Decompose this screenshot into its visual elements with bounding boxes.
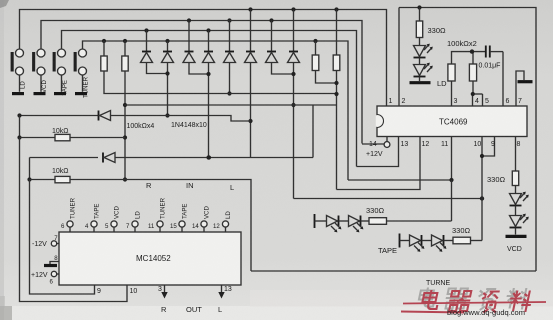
wire nested line pin12 y189.5	[337, 137, 421, 190]
wire big box bottom y271	[251, 270, 536, 272]
wire left column to pin10	[20, 138, 128, 302]
node L3-D1	[144, 28, 148, 32]
resistor R10 330 chain1	[366, 206, 452, 224]
pin 12 LD input	[213, 211, 232, 232]
resistor R4 100k	[333, 10, 340, 190]
pin 3 stub	[452, 81, 458, 106]
label R bus	[146, 181, 152, 190]
wire chain1 riser x451.5	[451, 180, 453, 221]
node L1-D8	[291, 7, 295, 11]
common bar chain1	[315, 214, 327, 228]
pin 6 +12V supply	[31, 271, 59, 285]
label 330O R7	[428, 26, 447, 35]
svg-text:blog.www.dq-gudq.com: blog.www.dq-gudq.com	[447, 308, 525, 317]
wire select bus y115.5 with diode D9	[20, 111, 251, 122]
pushbutton switch S1 LD	[11, 49, 27, 94]
svg-text:R: R	[161, 305, 167, 314]
node pin11 riser	[449, 178, 453, 182]
wire left column to pin9	[30, 180, 95, 295]
node bus-border junction	[17, 113, 21, 117]
bottom-left corner scan smudge	[0, 306, 12, 320]
LED TAPE2	[432, 235, 454, 252]
node oscillator top	[470, 49, 474, 53]
pin 9 stub	[491, 141, 495, 148]
wire nested line pin11 y180	[348, 137, 452, 181]
pin 6 TUNER input	[61, 197, 76, 232]
wire top border right box	[399, 8, 536, 272]
pin 7 stub with ground bar	[516, 71, 533, 106]
watermark gray shadow copy	[417, 288, 531, 311]
label 100kOx4	[127, 123, 155, 130]
LED LD1	[414, 44, 433, 58]
label 1N4148x10	[171, 122, 207, 129]
pin 4 stub	[473, 94, 480, 106]
watermark red text DianQiZiLiao	[420, 290, 534, 313]
pin 7 -12V supply	[32, 235, 59, 248]
label L bus	[230, 183, 234, 192]
watermark strike line	[403, 302, 546, 304]
ground LD	[410, 77, 448, 89]
resistor R12 330 VCD column	[487, 171, 519, 194]
wire pin10 column	[481, 137, 483, 241]
label 10kO R5	[52, 128, 69, 135]
pin 11 TUNER input	[148, 197, 166, 232]
diode D3 1N4148	[183, 21, 209, 75]
resistor R3 100k	[312, 41, 336, 83]
resistor R11 330 chain2	[452, 226, 482, 244]
bottom white margin strip	[0, 306, 553, 320]
node L1-R4	[334, 7, 338, 11]
LED VCD1	[510, 192, 529, 206]
pin 8 ground	[44, 255, 59, 266]
node L1-D6	[248, 7, 252, 11]
capacitor C1 0.01uF	[479, 46, 504, 70]
node L2-D7	[269, 18, 273, 22]
pin 3 R output arrow	[158, 285, 168, 299]
pin 9 stub	[97, 288, 101, 295]
label 100kOx2	[447, 39, 477, 48]
node L4-R1	[102, 39, 106, 43]
resistor R1 100k	[101, 41, 337, 94]
label 10kO R6	[52, 168, 69, 175]
IC U1 TC4069	[376, 106, 527, 137]
LED TUNER1	[327, 216, 349, 233]
wire bus L2 (VCD select line)	[41, 21, 362, 144]
diode D2 1N4148	[162, 41, 174, 118]
wire select bus y157.5 with diode D10	[30, 153, 314, 163]
node L2-D3	[187, 18, 191, 22]
pin 1 stub	[389, 98, 393, 105]
LED TAPE1	[410, 235, 432, 252]
label OUT	[186, 305, 202, 314]
pin 5 stub	[473, 94, 490, 106]
pushbutton switch S4 TUNER	[74, 49, 90, 98]
left scan edge shading	[0, 0, 4, 320]
resistor R7 330 LD column	[416, 5, 422, 45]
LED LD2	[414, 58, 433, 77]
watermark url	[447, 308, 525, 317]
pin 14 +12V supply	[362, 137, 390, 159]
node pin10 riser	[480, 196, 484, 200]
diode D5 1N4148	[224, 21, 236, 96]
pin 6 stub	[503, 52, 510, 106]
pushbutton switch S3 TAPE	[53, 49, 69, 96]
pin 14 VCD input	[192, 206, 210, 232]
pin 11 stub	[441, 141, 448, 148]
pin 7 LD input	[126, 211, 141, 232]
svg-text:L: L	[218, 305, 222, 314]
wire riser x313	[312, 105, 314, 158]
wire nested line pin10 y198.5	[294, 198, 483, 200]
top-left corner scan blotch	[0, 0, 9, 8]
wire nested line pin13 y166.5	[357, 137, 399, 167]
IC U2 MC14052	[59, 232, 241, 285]
LED VCD2	[510, 206, 529, 228]
label TURNE	[426, 280, 450, 287]
node L4-R3	[313, 39, 317, 43]
node L3-D4	[206, 28, 210, 32]
pin 4 TAPE input	[85, 204, 100, 232]
resistor R8 100k	[448, 52, 486, 81]
pin 12 stub	[422, 141, 430, 148]
diode D7 1N4148	[266, 21, 294, 75]
pin 13 stub	[401, 141, 409, 148]
resistor R6 10k with bus y179.5	[27, 158, 251, 272]
diode D8 1N4148	[288, 10, 300, 199]
label L out	[218, 305, 222, 314]
svg-text:OUT: OUT	[186, 305, 202, 314]
LED TUNER2	[349, 216, 370, 233]
pin 10 stub	[130, 288, 138, 295]
pin 15 TAPE input	[170, 204, 188, 232]
wire bus L4 (TUNER select line)	[83, 41, 349, 180]
node L4-R2	[123, 39, 127, 43]
label IN bus	[186, 181, 194, 190]
node L2-D5	[227, 18, 231, 22]
pin 2 stub	[399, 8, 406, 107]
resistor R2 100k	[122, 41, 128, 182]
scan noise overlay	[0, 0, 1, 1]
diode D1 1N4148	[141, 31, 168, 74]
wire mid bus y105	[125, 104, 337, 106]
pin 8 stub	[516, 137, 521, 172]
pin 13 L output arrow	[218, 285, 232, 299]
pin 10 stub	[474, 141, 482, 148]
diode D4 1N4148	[203, 31, 215, 160]
wire bus L1 (LD select line)	[20, 10, 387, 107]
pin 5 VCD input	[105, 206, 120, 232]
resistor R9 100k	[469, 52, 476, 97]
common bar chain2 TAPE	[378, 234, 410, 256]
ground VCD	[506, 228, 527, 254]
watermark underline	[401, 312, 464, 313]
label R out	[161, 305, 167, 314]
node L4-D2	[165, 39, 169, 43]
wire pin9 jog	[480, 137, 495, 159]
wire bus L3 (TAPE select line)	[62, 31, 357, 167]
diode D6 1N4148	[245, 10, 257, 158]
pushbutton switch S2 VCD	[32, 49, 48, 94]
resistor R5 10k with bus y137.5	[17, 116, 125, 141]
